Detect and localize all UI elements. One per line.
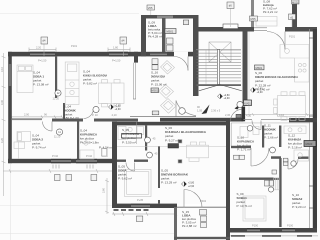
svg-text:ker.pločice: ker.pločice — [122, 136, 137, 140]
svg-text:MS01: MS01 — [152, 89, 159, 93]
tag box KV01 — [244, 100, 252, 106]
room label soba2 right unit — [292, 193, 306, 209]
svg-text:4,20: 4,20 — [0, 137, 4, 143]
wall right-unit hodnik/kuhinja divider — [279, 126, 281, 148]
window W2 in top wall — [109, 52, 128, 56]
room label loggia A — [148, 21, 163, 39]
svg-text:2,00: 2,00 — [24, 113, 30, 117]
leader line d4b — [123, 44, 125, 56]
elevator shaft with cross brace — [209, 42, 231, 62]
highlight box mid-bath label — [122, 134, 142, 138]
svg-text:P: 9,82 m²: P: 9,82 m² — [83, 82, 97, 86]
wall building-A top — [141, 15, 199, 19]
bed middle unit — [125, 170, 152, 197]
wall mid-bath south segment2 — [134, 160, 148, 162]
vertical dim line mid-bottom with 260 — [105, 178, 109, 214]
tag box under middle unit — [136, 216, 143, 221]
wall loggia east — [162, 19, 166, 53]
loggia glass door in y52 wall — [150, 53, 167, 56]
svg-text:3,10: 3,10 — [0, 66, 4, 72]
wall soba1/soba2 divider — [12, 118, 42, 120]
svg-text:MS01: MS01 — [167, 30, 174, 34]
tag boxes right-unit soba pair — [265, 180, 274, 186]
room label kupaonica left unit — [80, 129, 113, 150]
leader line d6 — [230, 9, 232, 28]
svg-text:+2,90: +2,90 — [188, 185, 195, 188]
wall left-unit top — [8, 52, 196, 57]
tag circle mid-bath 2 — [147, 152, 153, 158]
svg-text:P: 3,18 m²: P: 3,18 m² — [288, 146, 302, 150]
room label kuhinja bump top — [263, 0, 278, 14]
armchair rotated upper unit 2 — [159, 85, 174, 99]
window right-unit south 2 — [282, 229, 295, 232]
svg-text:P+05: P+05 — [137, 198, 144, 202]
wall kitchen-bump west — [251, 0, 254, 27]
wall middle-unit west hatched — [112, 122, 117, 208]
svg-text:P: 9,62 m²: P: 9,62 m² — [118, 177, 132, 181]
door leaf soba2 left unit — [51, 122, 53, 132]
room label dnevni boravak middle unit — [161, 169, 189, 185]
door arc right-unit hodnik — [251, 148, 269, 166]
tag box MS1 loggia wall — [183, 20, 188, 25]
svg-text:MS03: MS03 — [306, 142, 313, 146]
svg-text:V05: V05 — [148, 6, 153, 10]
wall mid-bath east — [145, 126, 147, 151]
stair landing upper line — [196, 49, 241, 51]
kitchen top counter right unit — [284, 126, 306, 134]
wall right-unit kuhinja south segment2 — [298, 157, 309, 159]
door arc vestibule entry — [174, 57, 188, 71]
wall left exterior — [8, 52, 12, 163]
wall top-right horizontal y27 — [196, 27, 317, 32]
kitchen counter L top-right unit — [280, 45, 309, 83]
level marker hall — [218, 94, 231, 100]
svg-text:P=1,50: P=1,50 — [38, 58, 47, 62]
svg-text:12 20: 12 20 — [53, 97, 60, 101]
wall right-unit kupaonica east — [262, 126, 264, 148]
dining table big room — [274, 92, 306, 121]
svg-text:P: 13,29 m²: P: 13,29 m² — [161, 181, 177, 185]
door leaf vestibule entry — [187, 57, 189, 71]
svg-text:Pk 4,28 m²: Pk 4,28 m² — [148, 35, 163, 39]
wall stairwell west hatched — [193, 15, 199, 96]
svg-text:P: 13,08 m²: P: 13,08 m² — [33, 83, 49, 87]
interior dimension line hodnik left unit — [10, 115, 63, 118]
dimension line under middle unit — [112, 212, 177, 216]
dim line above right-unit top band — [245, 113, 317, 116]
shower partition mid-bath — [136, 122, 138, 144]
svg-text:Pk 2,88 m²: Pk 2,88 m² — [182, 224, 197, 228]
level marker lower lobby — [182, 182, 195, 188]
dining table left unit — [99, 80, 125, 107]
door arc soba2 left unit — [43, 122, 53, 132]
door arc kitchen top-right — [267, 32, 285, 50]
level marker kitchen-dining left unit — [109, 105, 122, 111]
window segment in building-A top wall — [157, 16, 173, 19]
loggia middle thin line across doorway — [177, 206, 226, 208]
door leaf right-unit hodnik — [250, 148, 252, 166]
wall loggia-middle west — [174, 207, 177, 240]
tag circle mid-bath 1 — [145, 137, 151, 143]
bed soba1 left unit — [17, 65, 33, 93]
wall right exterior — [313, 29, 317, 233]
door arc lobby to loggia room — [184, 190, 202, 208]
tag circle right-unit entry — [247, 126, 253, 132]
room label soba2 left unit — [32, 134, 46, 150]
window middle south wall — [131, 204, 150, 207]
tag box MS1 middle top band — [152, 111, 159, 115]
svg-text:Pk 4,21 m²: Pk 4,21 m² — [263, 10, 278, 14]
svg-text:4,30: 4,30 — [246, 113, 252, 117]
stair bottom landing edge — [197, 84, 242, 86]
door leaf dnevna to hall — [175, 101, 177, 118]
svg-text:P=1,50: P=1,50 — [112, 58, 121, 62]
stair bottom chevron — [199, 85, 242, 91]
svg-text:+2,90: +2,90 — [115, 108, 122, 111]
door gap kitchen in y27 wall — [267, 27, 285, 32]
wall right-unit kupaonica south — [231, 146, 251, 148]
svg-text:P=10: P=10 — [86, 154, 93, 158]
window W3 in left wall — [9, 64, 12, 86]
dining table middle unit — [187, 142, 209, 161]
wall soba-dnevni divider middle unit — [158, 146, 160, 188]
kitchen counter top bump — [256, 17, 277, 27]
wall kupaonica-left west — [77, 122, 79, 160]
bed soba1 right unit — [243, 196, 266, 221]
tag boxes kitchen door pair — [283, 158, 288, 165]
bath fixtures left unit — [80, 141, 108, 159]
wall hodnik south segment — [52, 119, 83, 122]
door leaf kitchen top-right — [284, 32, 286, 50]
svg-text:MS01: MS01 — [256, 66, 263, 70]
armchair rotated upper unit 1 — [161, 61, 175, 75]
door arc right-unit kuhinja — [288, 159, 298, 169]
tag circle right-unit hodnik — [270, 147, 276, 153]
svg-text:P101: P101 — [71, 44, 78, 48]
svg-text:P. 10: P. 10 — [92, 113, 98, 117]
tag box MS03 dark right — [304, 141, 316, 147]
tag circle right-unit soba — [268, 187, 273, 192]
stair center rail — [217, 50, 219, 85]
wall left-unit bottom — [8, 159, 117, 163]
tag boxes loggia-B stack — [200, 210, 207, 228]
tag box d6 — [227, 2, 234, 9]
svg-text:4,10: 4,10 — [279, 113, 285, 117]
leader line d4a — [43, 44, 45, 56]
tag boxes 1401 right bath — [234, 155, 245, 159]
svg-text:P: 13,71 m²: P: 13,71 m² — [237, 204, 253, 208]
tag box MS02 — [292, 0, 300, 4]
bed soba2 left unit — [14, 132, 31, 159]
wall right-unit south — [229, 228, 317, 233]
inner frame line right-unit top — [231, 122, 310, 124]
room label soba1 right unit — [237, 192, 253, 208]
wall hall south (building A bottom) — [160, 118, 244, 122]
leader line V05a — [150, 10, 152, 15]
svg-text:parket: parket — [165, 134, 174, 138]
shaft soba1 right unit — [274, 178, 279, 190]
sill dash row under middle unit — [114, 209, 149, 211]
svg-text:+2,90: +2,90 — [224, 97, 231, 100]
door gap vestibule entry — [174, 52, 188, 57]
room label big room — [255, 71, 299, 92]
tag box d1 — [289, 14, 296, 20]
svg-text:KV01: KV01 — [244, 101, 251, 105]
window W1 in top wall — [30, 52, 55, 56]
tag circle dnevna upper unit — [179, 108, 186, 115]
svg-text:2,36 x 5: 2,36 x 5 — [211, 109, 221, 113]
door leaf right-unit kuhinja — [287, 159, 289, 169]
tag box IV05 — [250, 16, 258, 21]
tag box MS01 dnevna upper — [151, 88, 159, 93]
room label hodnik right unit — [264, 123, 278, 139]
tag circle hodnik door left unit — [55, 90, 61, 96]
svg-text:P: 1,71 m²: P: 1,71 m² — [237, 148, 251, 152]
door arc right-unit entry — [252, 121, 261, 130]
door arc mid-bath — [126, 163, 135, 172]
room label loggia B — [182, 210, 197, 228]
svg-text:1,05: 1,05 — [197, 109, 203, 113]
door leaf lobby — [183, 190, 185, 208]
dark chair marks middle unit — [178, 140, 182, 164]
svg-text:P: 9,27 m²: P: 9,27 m² — [165, 139, 179, 143]
svg-text:P: 9,74 m²: P: 9,74 m² — [32, 146, 46, 150]
bath fixtures right unit — [240, 127, 259, 138]
entry door leaf stub — [242, 107, 246, 122]
svg-text:P100: P100 — [287, 224, 294, 228]
tag boxes vestibule pair — [167, 38, 174, 51]
bath fixtures middle unit — [118, 127, 144, 140]
window sill ticks a — [53, 165, 59, 169]
svg-text:2,36: 2,36 — [225, 113, 231, 117]
tag box MS01 big room — [255, 65, 265, 70]
thin floor line above band — [130, 116, 196, 118]
door gap to loggia middle — [184, 204, 202, 208]
wall kupaonica-left top segment — [94, 119, 138, 122]
window W5 bottom wall — [76, 159, 97, 163]
wall middle-unit south — [112, 204, 177, 208]
room label kuhinja middle unit — [165, 126, 207, 143]
tag boxes loggia-A pair — [152, 59, 158, 70]
top dimension line over window 2 — [108, 48, 130, 54]
tag box V05a — [147, 5, 155, 10]
wall building-B top — [112, 122, 230, 126]
tag circle soba2 door left unit — [56, 129, 62, 135]
wall middle-unit east incl loggia — [226, 122, 230, 240]
svg-text:Pk 1,40 m²: Pk 1,40 m² — [255, 88, 270, 92]
tag box soba1 right top — [272, 170, 277, 174]
wall hodnik west — [63, 103, 65, 119]
door arc building entry — [231, 109, 242, 121]
room label kupaonica middle unit — [122, 128, 140, 145]
wall soba-dnevni divider lower stub — [158, 200, 160, 204]
svg-text:P: 2,66 m²: P: 2,66 m² — [264, 135, 278, 139]
thin partition line big-room south — [244, 119, 253, 121]
room label soba1 left unit — [33, 71, 49, 87]
svg-text:P402: P402 — [200, 199, 207, 203]
door arc dnevna to hall — [176, 101, 196, 116]
wall right-unit soba divider — [279, 158, 281, 227]
svg-text:P100: P100 — [252, 224, 259, 228]
kitchen counter block left unit — [65, 62, 79, 105]
bottom-left horizontal dimension line under unit — [3, 169, 115, 173]
window W4 bottom wall — [51, 159, 71, 163]
glass door east wall — [133, 63, 136, 99]
wall mid-bath south — [117, 160, 126, 162]
leader line d1 — [291, 20, 293, 28]
tag boxes under left unit bottom wall — [55, 175, 97, 181]
inner face line right wall — [309, 29, 311, 232]
tag box d4a — [41, 37, 48, 44]
window kitchen pass in y27 wall — [254, 27, 267, 32]
wall soba1 east — [55, 56, 57, 98]
wall big-room south east part — [289, 118, 317, 122]
wall right-unit hodnik/kuhinja south — [271, 156, 281, 159]
stair walk line left flight — [205, 50, 207, 84]
wall right-unit soba1 top — [239, 178, 279, 180]
faint grid line bottom-left horizontal 2 — [0, 233, 174, 235]
tag circle kitchen left unit — [93, 106, 99, 112]
stair direction arrow dark — [202, 105, 210, 115]
armchair rotated upper unit 3 — [161, 99, 177, 114]
svg-text:P=10: P=10 — [52, 154, 59, 158]
window sill ticks b — [87, 165, 93, 169]
svg-text:4,10: 4,10 — [112, 113, 118, 117]
dimension line under right unit with dark dashes — [228, 235, 318, 237]
svg-text:P101: P101 — [289, 35, 296, 39]
wall left-unit east upper stub — [134, 52, 138, 63]
faint grid line top — [0, 13, 139, 15]
room label dnevna upper unit — [151, 71, 167, 87]
svg-text:3,30: 3,30 — [0, 99, 4, 105]
floor change line middle unit — [117, 146, 226, 148]
svg-text:P: 4,54 m²: P: 4,54 m² — [99, 146, 113, 150]
tag circle big room — [237, 101, 243, 107]
svg-text:11 20: 11 20 — [54, 135, 61, 139]
wall stairwell east hatched — [243, 31, 248, 106]
stair second arrow dark — [235, 103, 243, 110]
floor edge line big room — [248, 32, 250, 118]
tag box dark middle unit — [168, 144, 179, 148]
small box right-unit top wall — [236, 114, 241, 118]
room label kuhinja right unit — [288, 134, 303, 150]
svg-text:P: 15,06 m²: P: 15,06 m² — [151, 83, 167, 87]
left vertical dimension line — [2, 53, 6, 196]
fixture box left bath wc — [102, 149, 107, 157]
top dimension line over window 1 — [29, 48, 56, 54]
svg-text:180 D-1,00: 180 D-1,00 — [64, 116, 79, 120]
svg-text:MS02: MS02 — [292, 0, 299, 4]
wall loggia west hatched — [141, 15, 146, 56]
wall loggia-middle south — [174, 237, 230, 239]
svg-text:P: 3,50 m²: P: 3,50 m² — [122, 141, 136, 145]
inner frame line right-unit west — [230, 123, 232, 146]
svg-text:IV05: IV05 — [250, 17, 256, 21]
door leaf right-unit entry — [260, 121, 262, 130]
svg-text:1,80: 1,80 — [113, 46, 119, 50]
faint grid line bottom-left horizontal 1 — [0, 205, 112, 207]
tag circle right-unit kuhinja — [291, 161, 296, 166]
window right-unit south 1 — [247, 229, 260, 232]
vent box on y27 wall — [223, 24, 238, 29]
level marker big room — [251, 88, 264, 94]
room label kuhinja left unit — [83, 70, 108, 86]
kitchen counter right unit — [294, 150, 309, 161]
door arc hodnik left unit — [84, 109, 94, 119]
tag box MS01 vestibule — [165, 29, 176, 34]
svg-text:parket: parket — [255, 79, 264, 83]
svg-text:2,20: 2,20 — [36, 46, 42, 50]
room label soba middle unit — [118, 165, 132, 181]
svg-text:2,60: 2,60 — [102, 187, 106, 193]
svg-text:P: 9,20 m²: P: 9,20 m² — [292, 205, 306, 209]
svg-text:Pk 2h S=1,8m: Pk 2h S=1,8m — [80, 141, 99, 145]
faint vertical grid line left — [10, 164, 12, 240]
stair steps — [197, 50, 242, 81]
window break marks right wall — [309, 38, 313, 208]
tag box d4b — [120, 37, 127, 44]
door leaf mid-bath — [134, 163, 136, 172]
room label kupaonica right unit — [237, 136, 255, 152]
wall kitchen-bump east hatched — [292, 0, 297, 29]
room label hodnik left unit — [64, 105, 79, 121]
